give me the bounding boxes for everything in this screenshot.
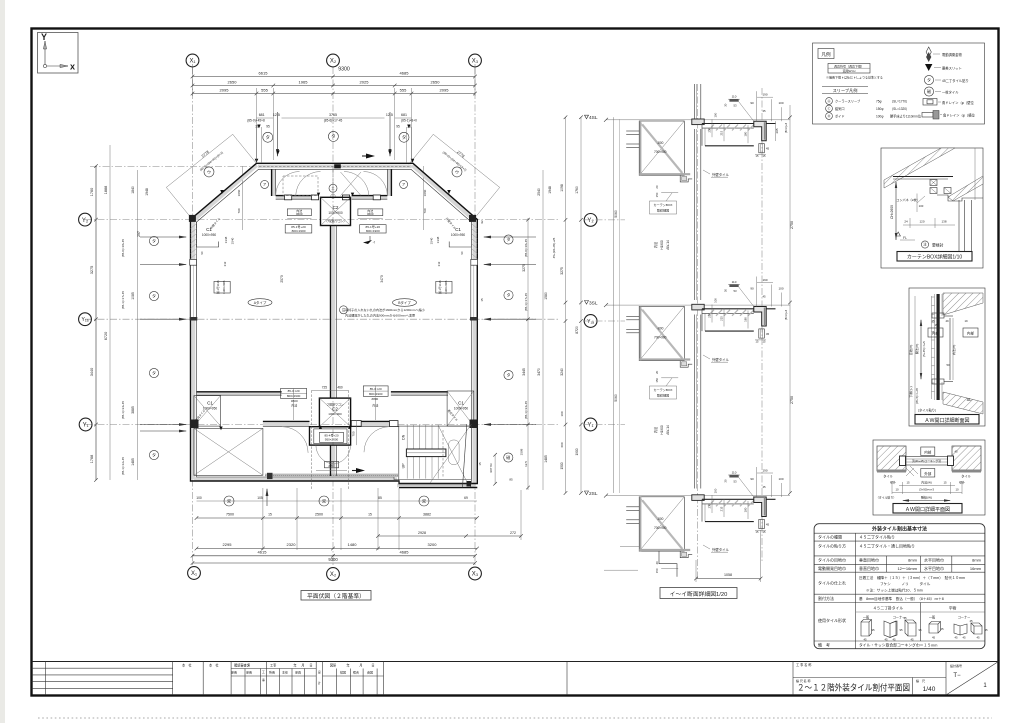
svg-text:460: 460	[337, 385, 343, 389]
svg-text:-800: -800	[657, 517, 664, 521]
svg-text:一般: 一般	[863, 615, 870, 620]
svg-text:タ: タ	[266, 134, 271, 141]
svg-text:45: 45	[984, 628, 988, 632]
svg-text:45+(96+45)+25: 45+(96+45)+25	[552, 237, 556, 258]
svg-text:190: 190	[762, 469, 767, 473]
svg-text:2025: 2025	[360, 80, 370, 85]
svg-text:垂直目地巾: 垂直目地巾	[859, 565, 879, 571]
svg-text:角ドレイン（φ（壁位: 角ドレイン（φ（壁位	[942, 100, 975, 105]
svg-text:600: 600	[560, 442, 564, 447]
svg-text:85-3 ×20: 85-3 ×20	[288, 389, 300, 393]
svg-text:3240: 3240	[560, 368, 564, 376]
svg-text:1000×950: 1000×950	[202, 233, 216, 237]
svg-text:24: 24	[904, 220, 908, 224]
svg-text:Y₁ₐ: Y₁ₐ	[587, 319, 594, 325]
svg-text:100: 100	[778, 101, 783, 105]
svg-text:2540: 2540	[537, 188, 541, 196]
svg-text:150φ: 150φ	[876, 107, 883, 111]
svg-text:水平目地巾: 水平目地巾	[924, 557, 944, 563]
svg-text:45: 45	[884, 638, 888, 642]
svg-text:計: 計	[318, 681, 321, 685]
svg-text:一般: 一般	[929, 615, 936, 620]
svg-text:双: 双	[322, 498, 326, 503]
svg-text:x: x	[70, 62, 75, 72]
svg-text:555: 555	[400, 88, 407, 93]
svg-text:100: 100	[560, 411, 564, 416]
svg-text:AW-14: AW-14	[666, 425, 670, 435]
svg-text:45: 45	[903, 616, 907, 620]
svg-text:53: 53	[733, 289, 737, 293]
svg-text:電動調乗金物: 電動調乗金物	[942, 52, 962, 57]
svg-text:10: 10	[955, 488, 959, 492]
svg-text:確認審査課: 確認審査課	[234, 663, 251, 668]
svg-text:-800: -800	[657, 141, 664, 145]
svg-text:100φ: 100φ	[876, 115, 883, 119]
svg-text:X₃: X₃	[472, 59, 479, 65]
svg-text:30: 30	[724, 103, 728, 107]
svg-text:タ: タ	[927, 76, 931, 82]
svg-text:8mm: 8mm	[908, 558, 918, 563]
svg-text:313: 313	[223, 261, 227, 266]
svg-text:1500: 1500	[560, 462, 564, 469]
svg-text:1000×900: 1000×900	[328, 211, 342, 215]
svg-text:90: 90	[750, 287, 754, 291]
svg-text:15: 15	[943, 481, 947, 485]
svg-text:ＡＷ開口詳細平面図: ＡＷ開口詳細平面図	[905, 506, 950, 513]
svg-text:3275: 3275	[560, 267, 564, 275]
svg-text:ボイド: ボイド	[835, 114, 845, 119]
svg-text:コンパネ（2枚）: コンパネ（2枚）	[896, 197, 919, 202]
svg-text:120: 120	[919, 220, 924, 224]
svg-text:100: 100	[714, 298, 718, 303]
svg-text:2750: 2750	[790, 221, 794, 229]
svg-text:100: 100	[778, 287, 783, 291]
svg-text:45: 45	[762, 485, 766, 489]
svg-text:1060: 1060	[237, 189, 241, 196]
svg-text:180: 180	[744, 131, 748, 136]
svg-text:ウ: ウ	[207, 168, 211, 174]
svg-text:備 考: 備 考	[818, 641, 830, 647]
svg-text:180: 180	[744, 507, 748, 512]
svg-text:日: 日	[309, 664, 312, 668]
svg-text:800×1900: 800×1900	[287, 394, 301, 398]
svg-text:種枞(W): 種枞(W)	[921, 495, 932, 500]
svg-text:（タイル貼り）: （タイル貼り）	[876, 495, 896, 500]
svg-text:H1900: H1900	[660, 425, 664, 435]
svg-text:給気口: 給気口	[835, 106, 845, 111]
svg-text:月: 月	[301, 664, 304, 668]
svg-text:#800: #800	[372, 397, 379, 401]
svg-text:8720: 8720	[575, 326, 579, 334]
svg-text:1760: 1760	[575, 186, 579, 194]
svg-text:月: 月	[359, 664, 362, 668]
svg-text:Y₂: Y₂	[82, 218, 89, 224]
svg-text:流(4b+45)コーキング流: 流(4b+45)コーキング流	[912, 459, 941, 463]
svg-text:検図: 検図	[340, 670, 346, 675]
svg-text:110: 110	[732, 95, 737, 99]
svg-text:45: 45	[969, 619, 973, 623]
svg-text:T−: T−	[953, 673, 961, 679]
svg-text:係長: 係長	[231, 670, 237, 675]
svg-text:４５二丁タイル・通し目地貼り: ４５二丁タイル・通し目地貼り	[859, 543, 915, 549]
svg-text:内部: 内部	[924, 449, 932, 454]
svg-text:双: 双	[227, 498, 231, 503]
svg-text:1888: 1888	[104, 186, 108, 194]
svg-text:SL: SL	[966, 397, 972, 402]
svg-text:15: 15	[906, 481, 910, 485]
svg-text:45: 45	[766, 147, 770, 151]
svg-text:２〜１２階外装タイル割付平面図: ２〜１２階外装タイル割付平面図	[797, 683, 910, 693]
svg-text:53: 53	[733, 480, 737, 484]
svg-text:69: 69	[464, 496, 468, 500]
svg-text:(85-1)×17+45: (85-1)×17+45	[524, 293, 528, 312]
svg-text:45: 45	[976, 636, 980, 640]
svg-text:1580: 1580	[544, 292, 548, 300]
svg-text:45: 45	[954, 636, 958, 640]
svg-text:工 事 名 称: 工 事 名 称	[796, 662, 812, 667]
svg-text:タイルの仕上れ: タイルの仕上れ	[818, 580, 846, 586]
svg-text:UP: UP	[402, 463, 406, 469]
svg-text:1098: 1098	[560, 184, 564, 192]
svg-text:事: 事	[262, 678, 265, 682]
svg-text:2928: 2928	[418, 531, 426, 535]
svg-text:4SL: 4SL	[589, 115, 598, 121]
svg-text:(85-1)×34+45: (85-1)×34+45	[524, 401, 528, 420]
svg-text:(85-0)×18+45: (85-0)×18+45	[524, 239, 528, 258]
svg-text:12.5: 12.5	[386, 113, 393, 117]
svg-text:45: 45	[962, 636, 966, 640]
svg-text:係長: 係長	[246, 670, 252, 675]
svg-text:1948: 1948	[145, 188, 149, 196]
svg-text:1768: 1768	[90, 455, 94, 463]
svg-text:審図: 審図	[367, 670, 373, 675]
svg-text:85: 85	[509, 478, 513, 482]
svg-text:3885: 3885	[131, 406, 135, 414]
svg-text:95: 95	[871, 628, 875, 632]
svg-text:（SL=1320）: （SL=1320）	[890, 106, 909, 111]
svg-text:タイルの貼り方: タイルの貼り方	[818, 543, 846, 549]
svg-text:割-1号1135: 割-1号1135	[438, 280, 442, 294]
svg-text:縮 尺: 縮 尺	[916, 678, 925, 683]
svg-text:272: 272	[510, 531, 516, 535]
svg-text:X₁: X₁	[191, 571, 197, 577]
svg-text:230: 230	[708, 503, 712, 508]
svg-text:X₂: X₂	[330, 572, 337, 578]
svg-text:４５二丁掛タイル: ４５二丁掛タイル	[873, 606, 904, 611]
svg-text:タ: タ	[152, 369, 156, 375]
svg-text:3882: 3882	[423, 513, 431, 517]
svg-text:1965: 1965	[299, 80, 309, 85]
svg-text:タイル・サッシ取合部コーキング巾＝１５mm: タイル・サッシ取合部コーキング巾＝１５mm	[859, 642, 937, 647]
svg-text:49: 49	[945, 319, 949, 323]
svg-text:230: 230	[708, 127, 712, 132]
svg-text:215: 215	[720, 316, 724, 321]
svg-text:3765: 3765	[329, 113, 337, 117]
svg-text:1000×900: 1000×900	[328, 412, 342, 416]
svg-text:20: 20	[655, 561, 659, 565]
svg-text:取詳細図: 取詳細図	[657, 393, 669, 398]
svg-text:950×2000: 950×2000	[325, 438, 339, 442]
svg-text:設: 設	[318, 670, 321, 674]
svg-text:2750: 2750	[790, 396, 794, 404]
svg-text:3440: 3440	[90, 368, 94, 376]
svg-text:(85-1)×8+0: (85-1)×8+0	[401, 119, 417, 123]
svg-text:工: 工	[262, 670, 265, 674]
svg-text:(85-1)×12+45: (85-1)×12+45	[121, 457, 125, 476]
svg-text:45: 45	[892, 638, 896, 642]
svg-text:295: 295	[775, 128, 779, 133]
svg-text:#600: #600	[296, 212, 303, 216]
svg-text:1485: 1485	[131, 458, 135, 466]
svg-text:窓枚(H): 窓枚(H)	[908, 345, 913, 355]
svg-text:180: 180	[744, 317, 748, 322]
svg-text:700: 700	[352, 431, 356, 436]
svg-text:Ⓓ: Ⓓ	[827, 113, 830, 118]
svg-text:45: 45	[932, 636, 936, 640]
svg-text:15: 15	[268, 513, 272, 517]
svg-text:230: 230	[708, 313, 712, 318]
svg-text:1840: 1840	[131, 186, 135, 194]
svg-text:(85-1)×34+45: (85-1)×34+45	[121, 401, 125, 420]
svg-text:要検討: 要検討	[932, 243, 944, 248]
svg-text:15: 15	[934, 323, 938, 327]
svg-text:15: 15	[368, 513, 372, 517]
svg-text:215: 215	[720, 506, 724, 511]
svg-text:1000×950: 1000×950	[454, 407, 468, 411]
svg-text:X₃: X₃	[472, 572, 479, 578]
svg-text:45: 45	[940, 627, 944, 631]
svg-text:磁: 磁	[927, 88, 931, 94]
svg-text:内法(H): 内法(H)	[951, 345, 956, 355]
svg-text:取詳細図: 取詳細図	[657, 208, 669, 213]
svg-text:(85-6)×17-45: (85-6)×17-45	[324, 119, 343, 123]
svg-text:5060: 5060	[614, 394, 618, 402]
svg-text:45: 45	[910, 638, 914, 642]
svg-text:凡例: 凡例	[821, 51, 831, 58]
svg-text:-800: -800	[657, 326, 664, 330]
svg-text:800×1900: 800×1900	[366, 229, 380, 233]
svg-text:790: 790	[423, 208, 427, 213]
svg-text:190: 190	[762, 93, 767, 97]
svg-text:４５二丁タイル貼り: ４５二丁タイル貼り	[859, 534, 895, 540]
svg-text:3470: 3470	[380, 275, 384, 283]
svg-text:1948: 1948	[548, 186, 552, 194]
svg-text:(3+90)×n+3: (3+90)×n+3	[919, 488, 934, 492]
svg-text:1190×2085: 1190×2085	[444, 280, 448, 294]
svg-text:2650: 2650	[431, 80, 441, 85]
svg-text:45: 45	[954, 450, 958, 454]
svg-text:内法(W): 内法(W)	[921, 480, 932, 485]
svg-text:85-4号+20: 85-4号+20	[324, 432, 338, 437]
svg-text:150: 150	[655, 568, 659, 573]
svg-text:外壁タイル: 外壁タイル	[712, 547, 730, 552]
svg-text:内法: 内法	[653, 242, 658, 248]
svg-text:110: 110	[732, 471, 737, 475]
svg-text:車椅子の入れない九の内法が1600mmから1200mmへ縮小: 車椅子の入れない九の内法が1600mmから1200mmへ縮小	[345, 307, 426, 312]
svg-text:平面伏図（２階基準）: 平面伏図（２階基準）	[307, 592, 365, 600]
svg-text:681: 681	[401, 113, 407, 117]
svg-text:1540: 1540	[430, 237, 434, 244]
svg-text:外部: 外部	[924, 471, 932, 476]
svg-text:30: 30	[724, 479, 728, 483]
svg-text:3275: 3275	[522, 264, 526, 272]
svg-text:100: 100	[919, 204, 924, 208]
svg-text:本 社: 本 社	[182, 663, 192, 668]
svg-text:壁外: 壁外	[890, 481, 896, 485]
svg-text:15: 15	[478, 462, 482, 466]
svg-text:150: 150	[655, 378, 659, 383]
svg-text:45: 45	[766, 332, 770, 336]
svg-text:8mm: 8mm	[972, 558, 982, 563]
svg-text:（タイル貼り）: （タイル貼り）	[916, 408, 938, 413]
svg-text:所長: 所長	[269, 670, 275, 675]
svg-text:75φ: 75φ	[876, 100, 882, 104]
svg-text:(B=C)+8: (B=C)+8	[784, 309, 788, 320]
svg-text:3445: 3445	[522, 368, 526, 376]
svg-text:(5+45)×n+5: (5+45)×n+5	[922, 341, 926, 357]
svg-text:4685: 4685	[400, 71, 410, 76]
svg-text:タイルの目地巾: タイルの目地巾	[818, 557, 846, 563]
svg-text:100: 100	[714, 488, 718, 493]
svg-text:2320: 2320	[287, 542, 297, 547]
svg-text:2SL: 2SL	[589, 491, 598, 497]
svg-text:※躴長下端トは仕むトしょつる基準とする: ※躴長下端トは仕むトしょつる基準とする	[826, 75, 883, 80]
svg-text:※注：サッシ上端は貼代10．５mm: ※注：サッシ上端は貼代10．５mm	[866, 588, 923, 593]
svg-text:カーテンBOX詳細図1/10: カーテンBOX詳細図1/10	[907, 254, 963, 261]
svg-text:215: 215	[720, 130, 724, 135]
svg-text:C1: C1	[207, 401, 213, 406]
svg-text:クーラースリーブ: クーラースリーブ	[835, 99, 861, 104]
svg-text:150: 150	[655, 192, 659, 197]
svg-text:工事: 工事	[270, 663, 277, 668]
svg-text:X₁: X₁	[189, 59, 195, 65]
svg-text:12.5: 12.5	[273, 113, 280, 117]
svg-text:係員: 係員	[295, 670, 301, 675]
svg-text:双: 双	[422, 498, 426, 503]
svg-text:45: 45	[762, 109, 766, 113]
svg-text:6615: 6615	[259, 71, 269, 76]
svg-text:図研: 図研	[330, 664, 337, 668]
svg-text:1000×950: 1000×950	[451, 233, 465, 237]
svg-text:1485: 1485	[544, 455, 548, 463]
svg-text:C2: C2	[333, 205, 339, 210]
svg-text:(B=C)+8: (B=C)+8	[784, 122, 788, 133]
svg-text:電動開発目地巾: 電動開発目地巾	[818, 565, 846, 571]
svg-text:使用タイル形状: 使用タイル形状	[818, 617, 846, 623]
svg-text:タ: タ	[402, 134, 407, 141]
svg-text:110: 110	[732, 280, 737, 284]
svg-text:FL: FL	[903, 236, 907, 240]
svg-text:(7配膳ワゴン): (7配膳ワゴン)	[327, 218, 345, 223]
svg-text:イ: イ	[372, 240, 375, 244]
svg-text:タ: タ	[507, 292, 511, 298]
svg-text:#800: #800	[291, 399, 298, 403]
svg-text:#600: #600	[367, 212, 374, 216]
svg-text:85-3 ×20: 85-3 ×20	[370, 387, 382, 391]
svg-text:基 8mm目地作基準 割込（一般） （8＋45）×n＋8: 基 8mm目地作基準 割込（一般） （8＋45）×n＋8	[859, 596, 944, 601]
svg-text:9300: 9300	[328, 557, 338, 562]
svg-text:3275: 3275	[90, 266, 94, 274]
svg-text:30: 30	[724, 289, 728, 293]
svg-text:9300: 9300	[338, 67, 350, 73]
svg-text:3200: 3200	[428, 542, 438, 547]
svg-text:1540: 1540	[231, 237, 235, 244]
svg-text:タイル: タイル	[883, 474, 893, 479]
svg-text:(85-0)×18+45: (85-0)×18+45	[121, 239, 125, 258]
svg-text:タ: タ	[152, 292, 156, 298]
svg-text:タ: タ	[152, 451, 156, 457]
svg-text:主任: 主任	[282, 670, 288, 675]
svg-text:6720: 6720	[104, 332, 108, 340]
svg-text:1900: 1900	[575, 448, 579, 455]
svg-text:平物: 平物	[949, 606, 957, 611]
svg-text:垂直目地巾: 垂直目地巾	[859, 557, 879, 563]
svg-text:スリーブ凡例: スリーブ凡例	[833, 87, 858, 94]
svg-text:Bタイプ: Bタイプ	[398, 300, 411, 305]
svg-text:45: 45	[762, 295, 766, 299]
svg-text:本 社: 本 社	[209, 663, 219, 668]
svg-text:ＡＷ開口詳細断面図: ＡＷ開口詳細断面図	[924, 417, 969, 424]
svg-text:X₂: X₂	[330, 59, 337, 65]
svg-text:1598: 1598	[519, 448, 523, 455]
svg-text:100: 100	[196, 496, 202, 500]
svg-text:16mm: 16mm	[970, 566, 982, 571]
svg-text:C1: C1	[458, 401, 464, 406]
svg-text:一枚タイル: 一枚タイル	[942, 90, 959, 95]
svg-text:タ: タ	[507, 371, 511, 377]
svg-text:勝手床より1110mm位: 勝手床より1110mm位	[890, 114, 922, 119]
svg-text:800×1900: 800×1900	[292, 229, 306, 233]
svg-text:1480: 1480	[348, 542, 358, 547]
svg-text:10: 10	[895, 488, 899, 492]
svg-text:内法: 内法	[291, 403, 297, 408]
svg-text:297: 297	[137, 231, 141, 237]
svg-text:3SL: 3SL	[589, 300, 598, 306]
svg-text:H1900: H1900	[660, 240, 664, 250]
svg-text:725: 725	[322, 385, 328, 389]
svg-text:45: 45	[863, 638, 867, 642]
svg-text:内法: 内法	[653, 427, 658, 433]
svg-text:1190×2085: 1190×2085	[222, 280, 226, 294]
svg-text:53: 53	[733, 104, 737, 108]
svg-text:Y₁: Y₁	[83, 423, 89, 429]
svg-text:Y₁: Y₁	[587, 423, 593, 429]
svg-text:（SL=1770）: （SL=1770）	[890, 99, 909, 104]
svg-text:92: 92	[480, 220, 484, 224]
svg-text:85: 85	[378, 496, 382, 500]
svg-text:2570: 2570	[280, 275, 284, 283]
svg-text:100: 100	[714, 112, 718, 117]
svg-text:1760: 1760	[90, 188, 94, 196]
svg-text:要美スリット: 要美スリット	[942, 66, 962, 71]
svg-text:イ〜イ断面詳細図1/20: イ〜イ断面詳細図1/20	[670, 590, 728, 598]
svg-text:907 83: 907 83	[489, 463, 493, 473]
svg-text:5060: 5060	[614, 210, 618, 218]
svg-text:700×900: 700×900	[654, 526, 667, 530]
svg-text:1000×950: 1000×950	[203, 407, 217, 411]
svg-text:555: 555	[261, 88, 268, 93]
svg-text:1060: 1060	[423, 189, 427, 196]
svg-text:DN: DN	[402, 434, 406, 440]
svg-text:20: 20	[655, 370, 659, 374]
svg-text:681: 681	[259, 113, 265, 117]
svg-text:12〜16mm: 12〜16mm	[897, 566, 917, 571]
svg-text:ウ: ウ	[455, 168, 459, 174]
svg-text:角ドレイン（φ（横位: 角ドレイン（φ（横位	[943, 113, 976, 118]
svg-text:1348: 1348	[436, 236, 440, 243]
svg-text:95: 95	[266, 125, 270, 129]
svg-text:カーテンBOX: カーテンBOX	[654, 387, 673, 392]
